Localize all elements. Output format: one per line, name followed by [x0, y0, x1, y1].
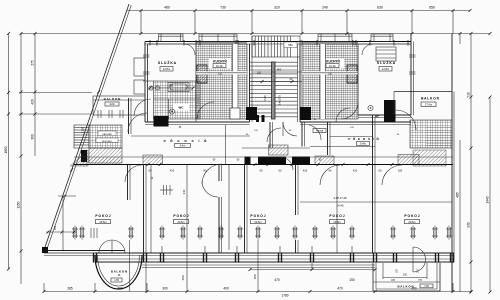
kitchen left label [209, 59, 231, 69]
svg-text:150: 150 [181, 275, 185, 280]
svg-text:17.6m: 17.6m [425, 103, 432, 107]
kitchen right door arc [341, 102, 358, 119]
svg-text:12.8m: 12.8m [163, 67, 170, 71]
entrance ramp hatch [89, 148, 122, 163]
svg-text:WC: WC [179, 106, 185, 110]
svg-text:B A L K O N: B A L K O N [111, 270, 127, 274]
svg-text:240: 240 [322, 6, 328, 10]
sluzka right wardrobe lines [376, 49, 396, 51]
svg-text:310: 310 [182, 189, 186, 194]
corridor wall right y146 [310, 146, 375, 148]
black stub stairwall [245, 157, 251, 165]
stair treads [250, 61, 298, 63]
terrace wall y115 [358, 114, 411, 116]
stair dim line [252, 71, 302, 73]
door arc pokoj 3 [320, 165, 340, 185]
kitchen right hatch [302, 44, 358, 119]
balcony left door fan [99, 240, 125, 253]
balcony right rect [372, 263, 374, 291]
door arc pokoj 4 [382, 165, 402, 185]
interior wall x220 [218, 165, 220, 182]
radiator hatch center [269, 145, 289, 155]
svg-text:14x17.5: 14x17.5 [278, 95, 282, 105]
svg-text:20.5m: 20.5m [254, 220, 261, 224]
svg-text:410: 410 [170, 169, 175, 173]
bath door arc [134, 99, 151, 116]
left dimension line x35 [34, 34, 36, 157]
window bay 1 [159, 34, 184, 42]
stairwell walls [249, 44, 251, 122]
left wardrobe rects [134, 58, 145, 76]
sluzka right door arc [362, 44, 373, 55]
svg-text:150: 150 [349, 278, 355, 282]
left outer wall upper block [144, 42, 146, 123]
svg-text:KUCHYŇ: KUCHYŇ [213, 59, 227, 64]
top dimension line [127, 10, 470, 12]
wc label [173, 104, 189, 111]
diagonal tick cross [63, 195, 66, 198]
wash basins [149, 86, 153, 90]
vestibule labels [98, 131, 116, 136]
corridor dim x225 [225, 125, 227, 165]
pokoj tick marks [163, 185, 165, 195]
bath right arc [336, 108, 350, 122]
right dimension line x490 [489, 97, 491, 292]
balcony left dim verticals [129, 240, 131, 292]
svg-text:KUCHYŇ: KUCHYŇ [326, 59, 340, 64]
svg-text:310: 310 [274, 6, 280, 10]
corridor door arc 2 [309, 125, 321, 140]
bath left hatch [154, 81, 201, 119]
svg-text:P Ř E D S Í Ň: P Ř E D S Í Ň [164, 138, 209, 143]
door arc pokoj 1 [125, 165, 142, 182]
lower block top wall [74, 156, 453, 158]
bottom wall left segment [44, 250, 95, 252]
svg-text:1.85: 1.85 [114, 280, 119, 282]
right outer wall upper block [410, 34, 412, 116]
black band center left [258, 157, 286, 165]
left dim tie y92 [19, 92, 92, 94]
bottom dimension line inner [250, 269, 375, 271]
svg-text:410: 410 [353, 169, 358, 173]
mid corridor wall left [145, 121, 250, 123]
svg-text:650: 650 [429, 6, 435, 10]
right wall window ticks [409, 54, 416, 56]
hall wall x129 [128, 98, 130, 134]
black band center right [292, 157, 310, 165]
lobby wall below stairs [269, 122, 271, 148]
svg-text:420: 420 [31, 99, 35, 105]
corridor door arc 1 [267, 128, 281, 142]
entrance black wedge [81, 150, 87, 162]
balcony right dims [382, 263, 384, 279]
svg-text:300: 300 [31, 134, 35, 140]
bathtub [168, 83, 189, 92]
corridor floor line [131, 135, 250, 137]
terrace door arc [396, 110, 416, 130]
svg-text:300: 300 [162, 287, 168, 291]
stair bottom posts [256, 115, 259, 122]
balcony right door arc [413, 247, 426, 272]
interior wall x297 [295, 165, 297, 216]
svg-text:20.5m: 20.5m [177, 220, 184, 224]
kitchen left sink [197, 65, 207, 83]
svg-text:6.4m: 6.4m [180, 145, 186, 148]
stair dim line2 [252, 81, 302, 83]
terrace ramp wedge [413, 150, 446, 166]
door arc center [280, 157, 293, 170]
svg-text:275: 275 [31, 60, 35, 66]
entrance steps [251, 36, 253, 57]
kitchen right label [322, 59, 344, 69]
kitchen left duct gap [233, 44, 239, 119]
kitchen right duct gap [320, 44, 326, 119]
interior wall x245 [244, 165, 246, 254]
svg-text:150: 150 [253, 274, 257, 279]
upper boundary slashes [140, 32, 143, 35]
stair exit arc [283, 122, 297, 136]
interior wall x128 [127, 165, 129, 200]
svg-text:480: 480 [164, 6, 170, 10]
svg-text:20.5m: 20.5m [408, 220, 415, 224]
black pier left [154, 116, 169, 127]
svg-text:485: 485 [456, 192, 460, 198]
balcony left round [95, 255, 142, 289]
right dimension line x460 [459, 34, 461, 45]
svg-text:12.8m: 12.8m [382, 67, 389, 71]
interior wall x144 [143, 165, 145, 254]
svg-text:20.5m: 20.5m [99, 220, 106, 224]
svg-text:P O K O J: P O K O J [404, 214, 419, 218]
svg-text:400: 400 [223, 287, 229, 291]
svg-text:VESTIBUL: VESTIBUL [102, 141, 113, 143]
svg-text:410: 410 [303, 169, 308, 173]
svg-text:ZÁDVEŘÍ: ZÁDVEŘÍ [102, 133, 112, 136]
pokoj dim x229 [228, 165, 230, 251]
top wall jamb ticks [149, 40, 151, 46]
svg-text:P O K O J: P O K O J [173, 214, 188, 218]
svg-text:4.2m: 4.2m [109, 103, 115, 106]
kitchen left dim gap [196, 71, 247, 74]
vestibule hatch [89, 125, 122, 148]
door leaf rect [230, 108, 240, 119]
entrance side hatch [70, 150, 88, 166]
wall x302 lower [301, 122, 303, 147]
window sill line [142, 264, 375, 266]
pokoj window dim ticks [161, 246, 163, 253]
svg-text:P O K O J: P O K O J [250, 214, 265, 218]
svg-text:4.05 17.25: 4.05 17.25 [333, 196, 347, 200]
svg-text:7.20: 7.20 [424, 286, 429, 288]
left dimension line x21 [20, 34, 22, 285]
terrace hatch [410, 120, 452, 148]
radiator cluster extra [90, 228, 92, 238]
left dim tie y114 [19, 113, 92, 115]
svg-text:730: 730 [220, 6, 226, 10]
bottom dimension line outer [44, 291, 471, 293]
svg-text:930: 930 [467, 222, 471, 228]
sluzka left door arc [184, 44, 195, 55]
right outer wall [451, 34, 453, 292]
bottom wall band [95, 252, 453, 254]
stair stringer [272, 62, 276, 119]
svg-text:650: 650 [277, 68, 282, 72]
window bay 3 [318, 34, 352, 42]
svg-text:B A L K O N: B A L K O N [397, 285, 413, 289]
door circle left [169, 109, 174, 114]
svg-text:470: 470 [337, 287, 343, 291]
svg-text:P O K O J: P O K O J [95, 214, 110, 218]
interior wall x373 [372, 165, 374, 253]
svg-text:6.4m: 6.4m [360, 143, 366, 146]
left stair steps [74, 125, 89, 148]
dim row below wall [147, 163, 150, 166]
svg-text:550: 550 [288, 43, 293, 47]
kitchen left hatch [196, 44, 247, 119]
bottom inner dim verticals [186, 253, 188, 292]
corridor floor line center [242, 147, 310, 149]
window posts [93, 253, 94, 263]
left dimension line x8 [8, 34, 10, 270]
window bay 2 [199, 34, 237, 42]
pokoj dim x151 [150, 165, 152, 254]
svg-text:120: 120 [257, 72, 262, 75]
door arc pokoj 2 [202, 164, 222, 184]
svg-text:630: 630 [377, 6, 383, 10]
svg-text:285: 285 [67, 287, 73, 291]
svg-text:470: 470 [274, 278, 280, 282]
sluzka right room [358, 44, 411, 115]
right dimension line x471 [470, 34, 472, 293]
wall right x373 [372, 115, 374, 165]
mid corridor wall right [300, 121, 411, 123]
svg-text:10.3m: 10.3m [216, 65, 223, 68]
svg-text:1440: 1440 [486, 196, 490, 203]
svg-text:ŠATNA: ŠATNA [316, 130, 324, 133]
balkon left platform [93, 96, 145, 115]
left wall window ticks [143, 54, 150, 56]
svg-text:550: 550 [169, 85, 174, 88]
black pier right [384, 100, 396, 122]
top wall band [145, 41, 411, 43]
corridor line right y136 [330, 136, 372, 138]
pokoj interior dim x337 [336, 165, 338, 253]
sluzka left dim [150, 87, 193, 89]
lower left corner wall [62, 197, 64, 250]
radiator hatch right [398, 155, 419, 165]
svg-text:710: 710 [467, 92, 471, 98]
diagonal dim stub [46, 231, 76, 233]
terrace railing [394, 91, 452, 93]
pokoj interior dim line [300, 201, 452, 203]
kitchen left door arc [197, 102, 214, 119]
black pier stair right [300, 107, 311, 120]
sluzka left room [148, 44, 197, 122]
diagonal site boundary [44, 4, 129, 250]
window bay 4 [371, 34, 393, 42]
wall x328 [327, 122, 329, 155]
radiator hatch left [143, 155, 163, 165]
svg-text:B A L K O N: B A L K O N [421, 97, 439, 101]
hall door arc [128, 113, 147, 132]
svg-text:14.40: 14.40 [337, 204, 344, 208]
svg-text:150: 150 [53, 225, 57, 230]
svg-text:1850: 1850 [4, 146, 8, 153]
svg-text:2.80: 2.80 [263, 95, 267, 101]
kitchen right dim gap [302, 71, 358, 74]
svg-text:S L U Ž K A: S L U Ž K A [158, 60, 177, 65]
svg-text:1780: 1780 [281, 294, 288, 298]
black pier stair left [246, 107, 257, 120]
radiator symbols row [73, 227, 75, 238]
wall hatch segment left [83, 158, 120, 165]
kitchen right sink [347, 65, 357, 83]
svg-text:10.3m: 10.3m [329, 65, 336, 68]
door arc pokoj 2b [202, 181, 218, 197]
upper boundary dimension line [20, 33, 490, 35]
svg-text:1150: 1150 [17, 201, 21, 208]
svg-text:150: 150 [398, 169, 403, 173]
svg-text:B A L K O N: B A L K O N [104, 97, 121, 101]
radiator hatch mid [315, 156, 334, 165]
satna box [313, 129, 326, 133]
